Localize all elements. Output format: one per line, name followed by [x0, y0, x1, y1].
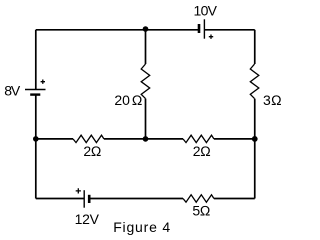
svg-text:5Ω: 5Ω	[192, 202, 210, 218]
svg-text:2Ω: 2Ω	[193, 143, 211, 159]
svg-text:2Ω: 2Ω	[83, 143, 101, 159]
svg-text:Ω: Ω	[132, 92, 143, 108]
svg-text:10V: 10V	[194, 3, 218, 19]
svg-text:8V: 8V	[4, 82, 21, 98]
svg-text:Ω: Ω	[271, 92, 282, 108]
svg-text:3: 3	[263, 92, 271, 108]
svg-text:Figure 4: Figure 4	[113, 219, 171, 235]
svg-text:20: 20	[114, 92, 130, 108]
svg-text:12V: 12V	[75, 211, 100, 227]
